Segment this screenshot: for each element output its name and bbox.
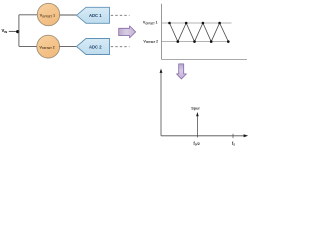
chart top: zigzag waveform (170, 23, 229, 42)
chart top: y-axis (161, 4, 163, 60)
svg-text:ADC 1: ADC 1 (89, 13, 102, 18)
svg-text:fS/2: fS/2 (193, 141, 200, 147)
arrow down purple (177, 64, 187, 79)
junction dot (16, 30, 19, 33)
plot bottom: x-axis (161, 135, 244, 137)
block ADC2 (77, 39, 110, 55)
chart top: sample dots (168, 22, 229, 43)
wire Voffset1 to ADC1 (60, 14, 77, 16)
svg-text:Spur: Spur (191, 107, 200, 111)
arrow right purple (119, 26, 136, 38)
block ADC1 (77, 7, 110, 23)
wire ADC2 dashed output (111, 46, 130, 48)
plot bottom: spur arrowhead (196, 112, 199, 116)
wire to Voffset1 (19, 14, 38, 16)
wire vertical bus (18, 15, 20, 47)
plot bottom: y-axis arrowhead (160, 69, 163, 73)
svg-text:VOFFSET 1: VOFFSET 1 (143, 21, 158, 26)
summing node VOFFSET2 circle (37, 35, 60, 58)
svg-text:VIN: VIN (2, 28, 8, 34)
plot bottom: x-axis arrowhead (244, 134, 249, 137)
plot bottom: tick fs (232, 134, 234, 138)
wire ADC1 dashed output (111, 14, 130, 16)
svg-text:ADC 2: ADC 2 (89, 44, 102, 49)
chart top: Voffset1 level line (162, 22, 232, 24)
svg-text:fS: fS (232, 141, 235, 147)
summing node VOFFSET1 circle (37, 3, 59, 25)
chart top: x-axis (162, 58, 248, 60)
chart top: Voffset2 level line (162, 41, 230, 43)
svg-text:VOFFSET 2: VOFFSET 2 (143, 39, 158, 44)
plot bottom: y-axis (160, 72, 162, 136)
wire to Voffset2 (19, 45, 38, 47)
plot bottom: spur arrow shaft (196, 116, 198, 137)
wire Vin to junction (9, 30, 19, 32)
wire Voffset2 to ADC2 (59, 45, 76, 47)
